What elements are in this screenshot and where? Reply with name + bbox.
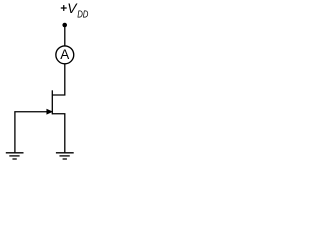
- svg-text:A: A: [60, 47, 69, 62]
- transistor Q1 gate arrowhead: [47, 109, 52, 114]
- ground right: [56, 153, 74, 159]
- ground left: [6, 153, 24, 159]
- ammeter A1: [56, 46, 74, 64]
- node VDD terminal dot: [62, 23, 67, 28]
- wire VDD dot to ammeter: [64, 25, 66, 46]
- wire ammeter to drain of Q1: [52, 64, 65, 95]
- svg-text:DD: DD: [77, 10, 89, 21]
- net +VDD label: [61, 1, 89, 21]
- wire gate of Q1 to left ground: [15, 112, 48, 153]
- wire source of Q1 to right ground: [52, 114, 65, 153]
- transistor Q1 JFET channel bar: [51, 90, 53, 114]
